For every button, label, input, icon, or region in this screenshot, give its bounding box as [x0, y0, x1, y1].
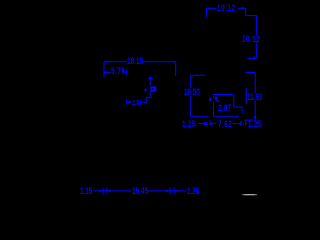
text 11.93 [247, 94, 262, 101]
dimension 0.69 top bar [147, 77, 153, 79]
bottom dim line seg 2 [148, 190, 186, 192]
bottom arrowhead 2 [107, 190, 111, 192]
bottom tick 4 [174, 188, 176, 195]
dimension 5.78 line left segment [104, 71, 111, 73]
box left edge lower [213, 103, 215, 117]
arrowhead 5.78 left [104, 71, 107, 72]
arrowhead between ticks C-D [243, 123, 244, 125]
vertical 10.12 bottom tick [247, 57, 257, 59]
text 1.25 bottom right of right cluster [248, 121, 262, 128]
dimension 0.69 vertical line upper [149, 76, 151, 86]
arrowhead at vertical 10.12 bottom tick [254, 57, 256, 59]
dim row line seg c [233, 123, 240, 125]
dimension 2.88 extension tick [126, 99, 128, 104]
bottom dim line seg 1 [94, 190, 132, 192]
dimension 10.50 arrow mark [191, 76, 193, 78]
arrowhead 2.88 pointing left [127, 101, 131, 103]
bottom arrowhead 4 [175, 190, 179, 192]
dim row tick D [245, 120, 247, 126]
dimension 2.88 line stub [127, 102, 130, 104]
arrowhead top 10.12 left [206, 7, 210, 8]
dimension 0.69 vertical line lower [149, 92, 151, 98]
dimension 18.15 horizontal line right segment [144, 61, 176, 63]
dim row tick A [204, 121, 206, 125]
dimension 5.78 line right segment [125, 71, 127, 73]
dim row line seg a [198, 123, 204, 125]
text 2.88 [132, 99, 142, 106]
text 5.08 fragment: 8 [218, 101, 220, 103]
arrowhead right of tick B [211, 122, 213, 125]
text 1.25 bottom [187, 188, 199, 195]
arrowhead 5.78 right [123, 71, 126, 72]
dimension 10.50 vertical line lower [190, 95, 192, 117]
arrowhead 18.15 right [172, 62, 175, 63]
top-right dimension 10.12 horizontal [206, 8, 256, 58]
box top edge [214, 94, 234, 96]
bottom tick 1 [102, 188, 104, 195]
text 10.12 vertical dim [242, 36, 260, 43]
bottom tick 2 [106, 188, 108, 195]
right cluster bottom dimension row [198, 120, 247, 126]
text 5.08 fragment: dot [211, 101, 212, 102]
text 1.25 bottom left of right cluster [182, 121, 196, 128]
bottom tick 3 [169, 188, 171, 195]
scale bar (gray) [242, 194, 257, 195]
bottom row of left cluster [94, 188, 187, 195]
dimension 5.78 right extension tick [126, 70, 128, 75]
text 10.50 [184, 89, 200, 96]
text 5.08 fragment: 0 body [215, 97, 218, 100]
arrowhead 0.69 pointing right [145, 88, 148, 91]
dim row line seg d [246, 123, 248, 125]
pin foot line [245, 119, 256, 121]
dimension 18.15 horizontal line left segment [104, 61, 127, 63]
text 18.15 [127, 58, 143, 65]
dim 10.12 left extension tick [205, 8, 207, 18]
dim row tick C [240, 121, 242, 126]
leader elbow from 0.69 to 2.88 dim [142, 97, 146, 102]
text blob .69 [151, 86, 157, 91]
dimension 11.93 top arm [245, 72, 255, 74]
text 5.08 fragment: 5 [209, 98, 211, 101]
bottom arrowhead 1 [99, 190, 103, 192]
dimension 10.50 top arm [191, 74, 206, 76]
dim row tick B [209, 121, 211, 127]
vertical 10.12 dim lower segment [255, 42, 257, 58]
elbow from 10.12 dim to vertical 10.12 dim [246, 8, 257, 35]
dimension 0.69 bottom bar [146, 96, 151, 98]
box right edge [233, 95, 235, 107]
dim 10.12 line left segment [206, 7, 217, 9]
right cluster: side view [191, 73, 256, 121]
arrowhead top 10.12 right [242, 7, 246, 8]
text 10.12 horizontal [217, 5, 236, 12]
dimension 11.93 vertical line lower [254, 100, 256, 119]
body baseline left segment [191, 116, 209, 118]
box left edge upper [213, 95, 215, 99]
dimension 10.50 vertical line upper [190, 75, 192, 88]
text 7.62 [218, 121, 232, 128]
text 15.45 [132, 188, 148, 195]
dimension 18.15 right extension line [175, 62, 177, 76]
dim 10.12 line right segment [238, 7, 246, 9]
arrowhead down at 11.93 bottom [253, 117, 256, 120]
text 5.78 [111, 68, 125, 75]
pin contact tick [245, 88, 247, 105]
text 2.87 [218, 105, 231, 112]
dimension 18.15 left extension line [103, 62, 105, 78]
arrowhead between ticks A-B left [206, 122, 208, 125]
bottom arrowhead 3 [166, 190, 170, 192]
dim row line seg b [212, 123, 216, 125]
body baseline right segment [213, 116, 239, 118]
counter dot inside .69 blob [152, 88, 153, 89]
elbow from box to pin [234, 107, 242, 114]
text 1.15 [80, 188, 92, 195]
dimension 11.93 vertical line upper [254, 73, 256, 94]
text 5.08 fragment: 0 tail [216, 100, 217, 102]
arrowhead left of tick C [240, 122, 241, 125]
arrowhead 18.15 left [105, 62, 108, 63]
